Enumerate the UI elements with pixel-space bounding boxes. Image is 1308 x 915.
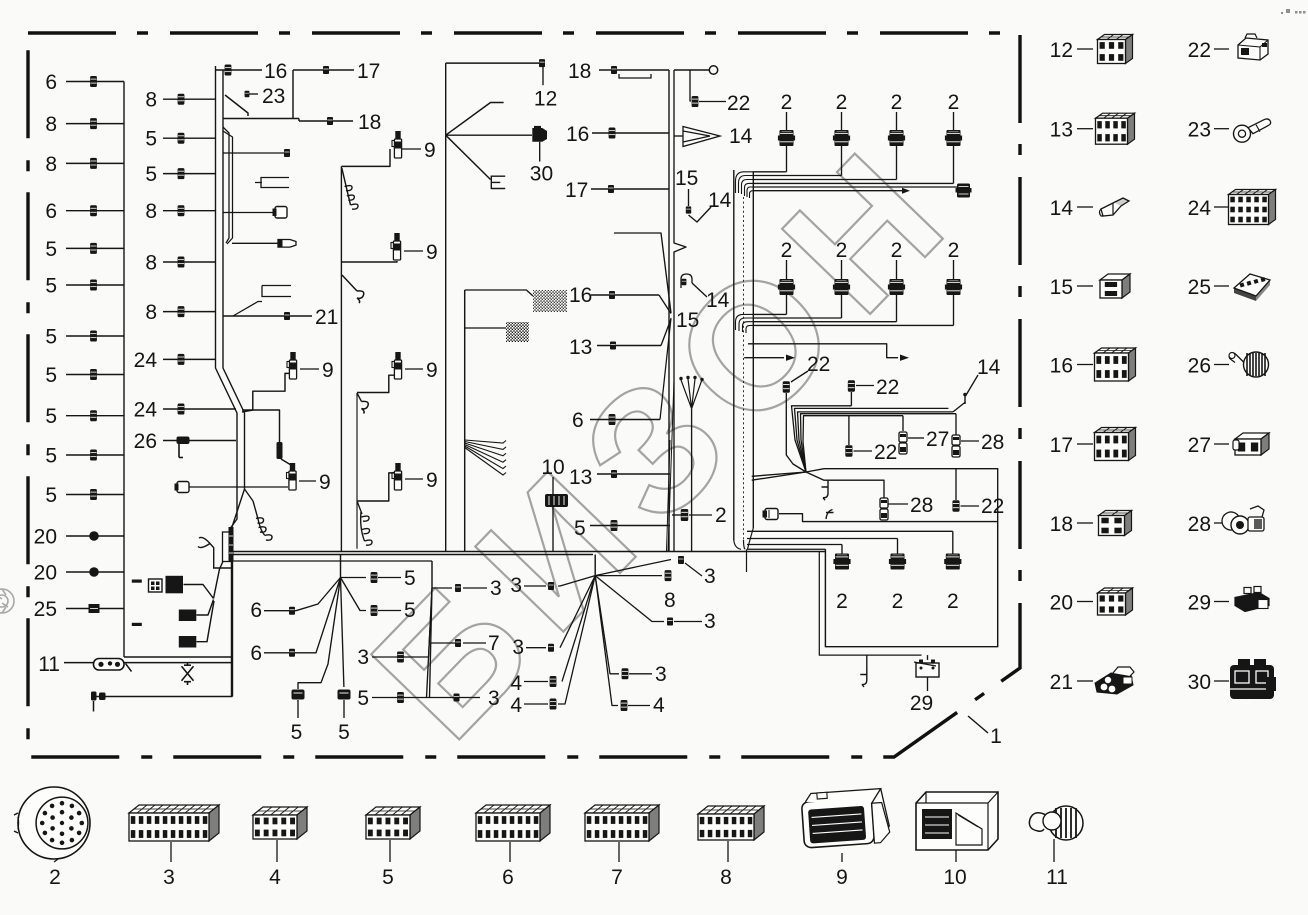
fan A wire — [298, 578, 341, 690]
stub 17 top — [293, 69, 354, 71]
svg-text:13: 13 — [1050, 119, 1073, 142]
svg-text:5: 5 — [357, 687, 369, 710]
fan C — [594, 555, 596, 576]
22b drop — [850, 392, 852, 406]
psi fork — [681, 379, 702, 409]
svg-text:2: 2 — [715, 504, 727, 527]
svg-text:22: 22 — [981, 495, 1004, 518]
fork connector y180 — [255, 178, 289, 188]
svg-text:17: 17 — [1050, 434, 1073, 457]
svg-text:5: 5 — [574, 517, 586, 540]
hatch patch 1 wire — [465, 290, 533, 296]
plug wire to 9 icon 5 — [189, 486, 288, 488]
svg-text:27: 27 — [926, 428, 949, 451]
svg-text:29: 29 — [1188, 592, 1211, 615]
svg-text:3: 3 — [163, 866, 175, 889]
svg-text:21: 21 — [315, 306, 338, 329]
bottom connector 10 — [916, 792, 998, 850]
svg-text:2: 2 — [948, 91, 960, 114]
inner dotted branch — [819, 551, 921, 655]
fan A wire — [296, 578, 341, 653]
9 icon 1 — [392, 132, 402, 159]
bundle line 5 with end connector — [753, 186, 958, 188]
9 icon 6 — [392, 464, 402, 491]
svg-text:5: 5 — [404, 567, 416, 590]
svg-text:20: 20 — [34, 526, 57, 549]
svg-text:28: 28 — [910, 494, 933, 517]
f-hook b — [826, 510, 834, 520]
svg-text:14: 14 — [708, 189, 732, 212]
bowtie clamp symbol — [182, 662, 194, 685]
svg-text:3: 3 — [510, 574, 522, 597]
fan C branch 3 top — [678, 556, 684, 564]
svg-text:7: 7 — [488, 632, 500, 655]
connector 2 left of box — [681, 509, 688, 521]
switch 29 — [927, 655, 929, 660]
plug y212 — [223, 212, 275, 214]
bus2 double vertical — [216, 66, 238, 528]
bus5 vertical — [445, 63, 447, 551]
fan A wire — [341, 578, 367, 611]
svg-text:22: 22 — [874, 441, 897, 464]
svg-text:21: 21 — [1050, 671, 1073, 694]
svg-text:9: 9 — [426, 469, 438, 492]
fan C branch 8 — [665, 570, 672, 581]
svg-text:22: 22 — [1188, 39, 1211, 62]
svg-text:4: 4 — [653, 694, 665, 717]
fork hook below 30 fan — [446, 135, 491, 179]
svg-text:14: 14 — [1050, 197, 1074, 220]
fan C wire — [595, 576, 618, 706]
fan C branch 4 right — [621, 700, 628, 711]
fan C wire — [595, 576, 619, 674]
E-fork at bus3 top — [342, 168, 351, 205]
watermark BIZON — [335, 102, 994, 774]
svg-text:16: 16 — [1050, 355, 1073, 378]
svg-text:14: 14 — [706, 289, 730, 312]
E-fork hanging at bus2 bottom — [253, 501, 272, 540]
bus2 inner pair — [223, 127, 229, 243]
fan B branch 3 right — [432, 587, 452, 589]
fan A bottom connector 5 b — [338, 690, 351, 700]
svg-text:4: 4 — [510, 672, 522, 695]
svg-text:9: 9 — [426, 241, 438, 264]
hatch patch 1 — [533, 290, 567, 312]
svg-text:9: 9 — [426, 359, 438, 382]
long wire y468 with 22d and loop — [779, 469, 998, 522]
svg-text:11: 11 — [1046, 866, 1068, 889]
svg-text:2: 2 — [49, 866, 61, 889]
svg-text:2: 2 — [836, 590, 848, 613]
fan C wire — [560, 576, 595, 648]
svg-text:30: 30 — [1188, 671, 1211, 694]
fan F to channel — [752, 472, 806, 476]
svg-text:15: 15 — [676, 309, 699, 332]
fan A wire — [296, 578, 341, 611]
bus1 vertical — [123, 82, 125, 658]
bottom connector 6 — [476, 805, 550, 841]
svg-text:8: 8 — [664, 589, 676, 612]
fan C branch 3 third — [622, 668, 629, 679]
fan B — [431, 561, 433, 588]
main bus horizontal lines — [232, 551, 825, 553]
svg-text:20: 20 — [1050, 592, 1073, 615]
watermark emblem — [0, 589, 14, 613]
hatch patch 2 — [506, 322, 529, 342]
pigtail 23 — [225, 95, 248, 116]
svg-text:2: 2 — [836, 91, 848, 114]
svg-text:14: 14 — [729, 125, 753, 148]
svg-text:5: 5 — [291, 721, 303, 744]
white plug lower — [765, 509, 778, 520]
svg-text:2: 2 — [947, 590, 959, 613]
hook c near box top — [198, 537, 233, 568]
line y480 with 28b drop — [806, 472, 884, 499]
fan C wire — [558, 576, 595, 586]
fan C wire — [558, 576, 595, 704]
svg-text:23: 23 — [1188, 119, 1211, 142]
svg-text:11: 11 — [38, 653, 60, 676]
svg-text:28: 28 — [1188, 513, 1211, 536]
svg-text:16: 16 — [569, 284, 592, 307]
svg-text:6: 6 — [45, 71, 57, 94]
svg-text:22: 22 — [876, 376, 899, 399]
svg-text:18: 18 — [1050, 513, 1073, 536]
channel middle taper — [736, 314, 754, 333]
svg-text:2: 2 — [781, 239, 793, 262]
svg-text:3: 3 — [357, 646, 369, 669]
svg-text:3: 3 — [490, 577, 502, 600]
svg-text:6: 6 — [250, 599, 262, 622]
svg-text:8: 8 — [145, 200, 157, 223]
svg-text:2: 2 — [781, 91, 793, 114]
svg-text:20: 20 — [34, 562, 57, 585]
28a drop connectors — [955, 414, 957, 436]
label 1 with leader — [968, 716, 988, 733]
hatch patch 2 wire — [465, 327, 506, 329]
svg-text:5: 5 — [45, 364, 57, 387]
bottom connector 2 — [18, 787, 90, 859]
svg-text:4: 4 — [269, 866, 281, 889]
fan C wire — [595, 576, 664, 622]
stub 16 top — [216, 69, 262, 71]
left equipment box — [124, 656, 233, 658]
fan A wire — [341, 578, 344, 688]
svg-text:13: 13 — [569, 336, 592, 359]
22d drop — [955, 469, 957, 500]
svg-text:5: 5 — [45, 405, 57, 428]
bus3 vertical — [340, 166, 342, 551]
channel bottom taper to fan G — [734, 528, 754, 572]
E-fork y515 — [357, 501, 362, 514]
lower right box — [825, 522, 997, 647]
svg-text:9: 9 — [322, 359, 334, 382]
svg-text:4: 4 — [510, 694, 522, 717]
fan A — [340, 555, 342, 578]
clamp under 18 wire — [619, 74, 651, 78]
svg-text:3: 3 — [655, 663, 667, 686]
svg-text:9: 9 — [319, 471, 331, 494]
svg-text:15: 15 — [675, 167, 698, 190]
svg-text:22: 22 — [727, 92, 750, 115]
connector 2 bottom 1 — [747, 544, 842, 546]
svg-text:3: 3 — [488, 687, 500, 710]
channel bus6 verticals — [733, 170, 735, 540]
svg-text:9: 9 — [836, 866, 848, 889]
svg-text:3: 3 — [704, 610, 716, 633]
svg-text:3: 3 — [512, 636, 524, 659]
bottom connector 3 — [129, 805, 219, 841]
svg-text:9: 9 — [424, 139, 436, 162]
svg-text:12: 12 — [534, 88, 557, 111]
tiny corner marks — [1281, 9, 1306, 14]
svg-text:24: 24 — [1188, 197, 1212, 220]
wire end blob bottom-left — [91, 692, 97, 701]
svg-text:24: 24 — [134, 399, 158, 422]
svg-text:5: 5 — [145, 128, 157, 151]
svg-text:5: 5 — [404, 599, 416, 622]
svg-text:17: 17 — [565, 179, 588, 202]
wire 21 — [223, 315, 312, 317]
svg-text:8: 8 — [145, 89, 157, 112]
svg-text:23: 23 — [262, 85, 285, 108]
fan A branch 5 right lower — [371, 605, 378, 616]
ring terminal end — [674, 69, 709, 71]
svg-text:10: 10 — [541, 456, 564, 479]
cone sleeve 14 — [683, 127, 720, 147]
svg-text:5: 5 — [45, 238, 57, 261]
relay block B — [179, 610, 197, 622]
svg-text:22: 22 — [807, 353, 830, 376]
bottom connector 4 — [253, 807, 307, 839]
drop to 22 top — [690, 70, 691, 101]
svg-text:6: 6 — [572, 409, 584, 432]
fan C branch 3 second — [667, 618, 673, 626]
svg-text:10: 10 — [943, 866, 966, 889]
channel arrow line b — [744, 357, 784, 359]
svg-text:30: 30 — [530, 162, 553, 185]
fan A branch 5 right — [371, 572, 378, 583]
channel top taper — [736, 172, 754, 198]
wires from relay blocks merging — [184, 585, 214, 599]
svg-text:26: 26 — [1188, 355, 1211, 378]
channel arrow line a — [748, 344, 898, 358]
connector 2 bottom 3 — [747, 530, 953, 532]
fan C wire — [595, 575, 662, 577]
wire to 12 stub — [446, 62, 542, 64]
22a connector with leader — [783, 381, 790, 393]
svg-text:5: 5 — [338, 721, 350, 744]
fork connector y293 with lead — [233, 286, 291, 317]
svg-text:2: 2 — [836, 239, 848, 262]
svg-text:14: 14 — [977, 356, 1001, 379]
dotted line to lower box — [747, 548, 825, 550]
bottom connector 9 — [801, 788, 891, 848]
connector 30 — [446, 134, 532, 136]
svg-text:3: 3 — [704, 565, 716, 588]
bottom connector 7 — [585, 805, 659, 841]
fan B branch 7 — [431, 642, 455, 644]
bus4 double vertical — [668, 70, 670, 552]
svg-text:5: 5 — [45, 275, 57, 298]
svg-text:7: 7 — [611, 866, 623, 889]
svg-text:13: 13 — [569, 466, 592, 489]
t-hook c — [866, 655, 868, 668]
9 icon 3 — [287, 353, 297, 380]
wire to 18 — [223, 118, 299, 120]
dash-dot border frame — [28, 33, 1020, 757]
fan C wire — [595, 560, 671, 576]
relay block A — [132, 580, 142, 583]
svg-text:2: 2 — [948, 239, 960, 262]
svg-text:8: 8 — [145, 301, 157, 324]
bundle3 lines from fan F — [792, 406, 852, 472]
bullet terminal y243 — [232, 242, 278, 244]
27 drop connectors — [902, 416, 904, 431]
svg-text:24: 24 — [134, 349, 158, 372]
14 pigtail — [953, 402, 966, 412]
t-hook a — [822, 480, 829, 500]
svg-text:5: 5 — [45, 484, 57, 507]
c-hook y400 — [357, 393, 362, 402]
bundle line 6 with arrow — [753, 190, 903, 192]
svg-text:12: 12 — [1050, 39, 1073, 62]
svg-text:2: 2 — [891, 91, 903, 114]
dotted vertical x357 — [356, 393, 358, 549]
svg-text:8: 8 — [45, 113, 57, 136]
svg-text:8: 8 — [145, 252, 157, 275]
fan C wire — [562, 576, 595, 682]
22c drop — [848, 416, 850, 445]
connector 2 bottom 2 — [747, 538, 898, 540]
svg-text:6: 6 — [502, 866, 514, 889]
fan A wire — [341, 577, 367, 579]
stub connector y153 — [223, 152, 284, 154]
svg-text:8: 8 — [45, 153, 57, 176]
fan from bus5 — [446, 103, 504, 136]
svg-text:29: 29 — [910, 692, 933, 715]
svg-text:1: 1 — [990, 725, 1002, 748]
svg-text:5: 5 — [45, 445, 57, 468]
bottom connector 5 — [366, 807, 420, 839]
svg-text:25: 25 — [1188, 276, 1211, 299]
svg-text:5: 5 — [382, 866, 394, 889]
wire segment y237 — [614, 233, 671, 313]
relay block C — [179, 636, 197, 648]
svg-text:5: 5 — [145, 163, 157, 186]
svg-text:5: 5 — [45, 326, 57, 349]
wire comb fan on stub — [465, 440, 506, 475]
svg-text:2: 2 — [891, 239, 903, 262]
svg-text:15: 15 — [1050, 276, 1073, 299]
fan A bottom connector 5 a — [292, 690, 305, 700]
svg-text:16: 16 — [264, 60, 287, 83]
bottom connector 11 — [1029, 806, 1083, 840]
c-hook y295 — [342, 275, 357, 291]
label 14 lower arch — [681, 274, 692, 288]
left vertical to box bottom — [231, 561, 233, 697]
svg-text:26: 26 — [134, 430, 157, 453]
svg-text:25: 25 — [34, 598, 57, 621]
central channel stub — [464, 290, 466, 552]
svg-text:17: 17 — [357, 60, 380, 83]
wire blob above 9 icon 5 — [242, 410, 280, 442]
bottom connector 8 — [698, 806, 764, 840]
slanted merge lines into bus4 bottom — [668, 380, 674, 551]
9 icon 2 — [391, 234, 401, 261]
svg-text:27: 27 — [1188, 434, 1211, 457]
svg-text:16: 16 — [566, 123, 589, 146]
9 icon 4 — [392, 353, 402, 380]
svg-text:18: 18 — [568, 60, 591, 83]
svg-text:6: 6 — [250, 642, 262, 665]
bus2 lower connector bar — [223, 532, 231, 562]
svg-text:28: 28 — [981, 431, 1004, 454]
fan B vertical V — [427, 588, 433, 698]
svg-text:2: 2 — [892, 590, 904, 613]
svg-text:6: 6 — [45, 200, 57, 223]
svg-text:8: 8 — [720, 866, 732, 889]
9 icon 5 — [287, 464, 297, 491]
svg-text:18: 18 — [358, 111, 381, 134]
